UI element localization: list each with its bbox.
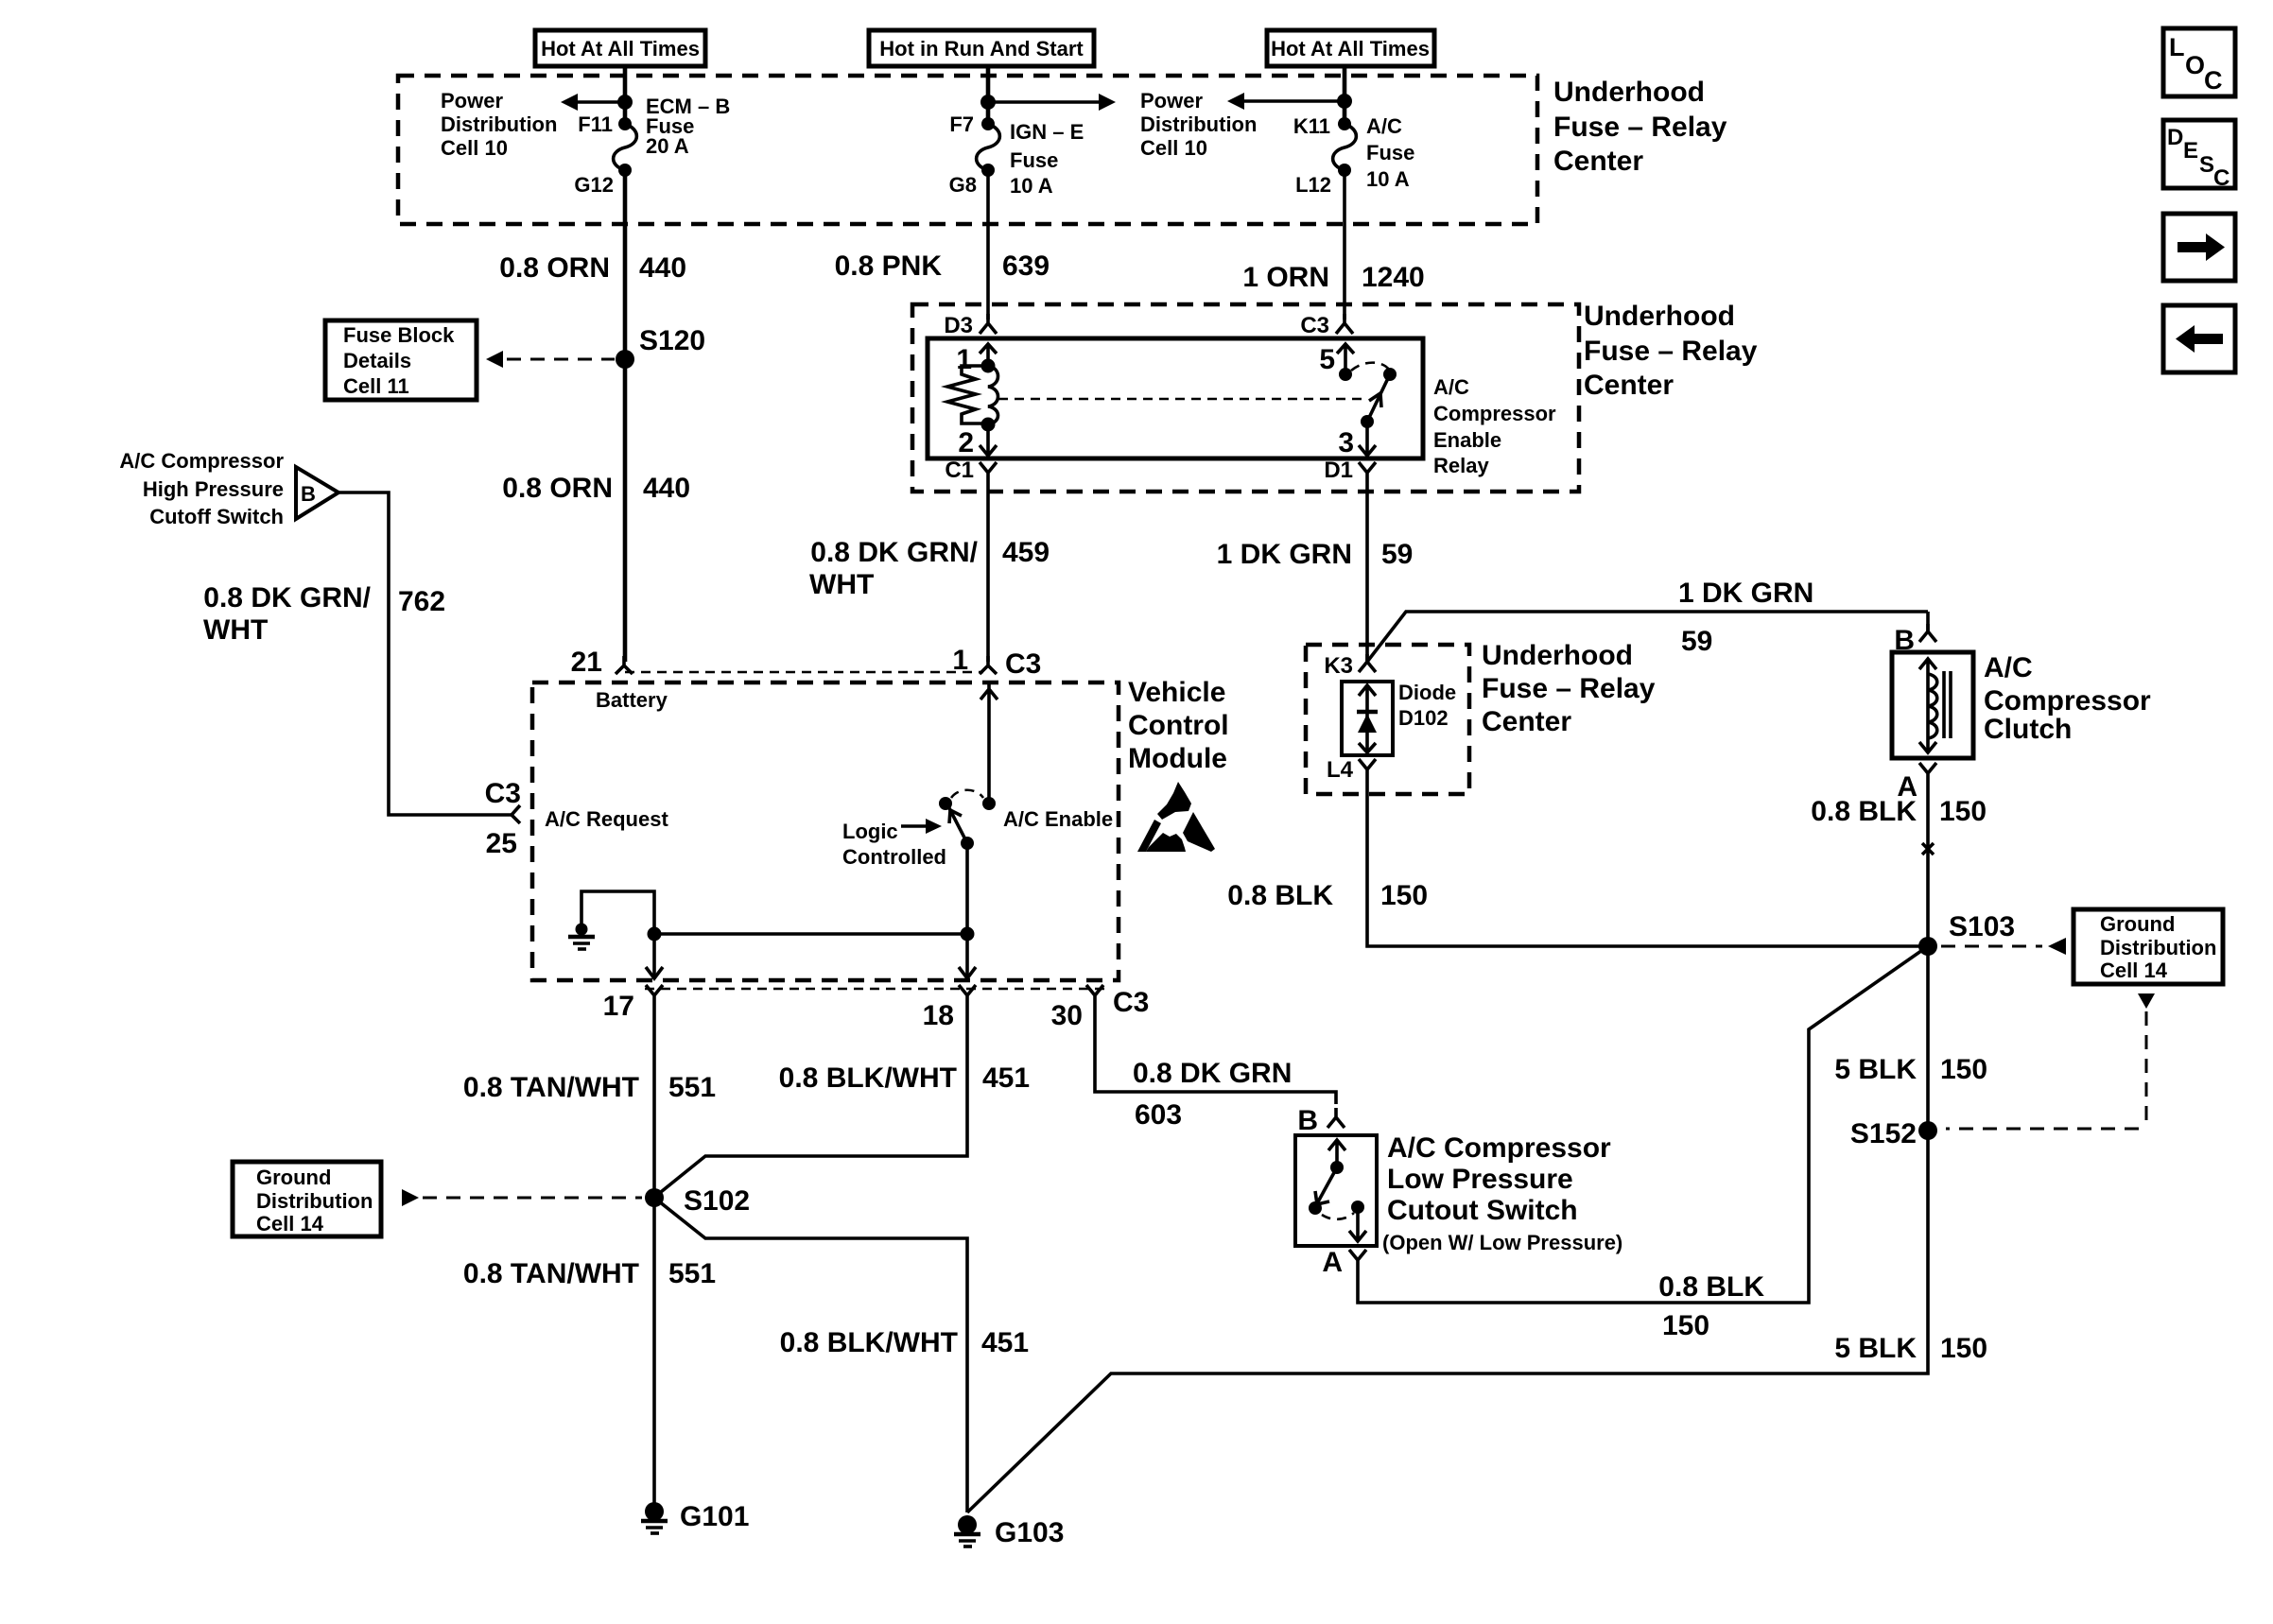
- relay switch blade: [1367, 374, 1390, 422]
- svg-text:Cell 14: Cell 14: [256, 1212, 324, 1235]
- arrow to power distribution (middle-left): [1227, 93, 1345, 110]
- VCM pin 30 connector: [1051, 985, 1150, 1031]
- relay resistor branch: [947, 366, 988, 423]
- svg-text:S152: S152: [1850, 1118, 1917, 1149]
- svg-text:0.8 TAN/WHT: 0.8 TAN/WHT: [463, 1072, 639, 1103]
- connector A (clutch): [1897, 763, 1936, 803]
- VCM pin 17 connector: [603, 985, 663, 1022]
- wire D1 column diagonal to 1 DK GRN horizontal: [1367, 612, 1928, 662]
- underhood fuse-relay center dashed box (top): [398, 76, 1537, 224]
- svg-text:High Pressure: High Pressure: [143, 477, 284, 501]
- svg-text:639: 639: [1002, 251, 1050, 282]
- svg-text:D1: D1: [1324, 458, 1353, 483]
- svg-text:A/C Request: A/C Request: [545, 807, 668, 831]
- svg-text:Ground: Ground: [2100, 912, 2175, 936]
- relay pin 3 arrow: [1338, 422, 1376, 458]
- svg-text:D: D: [2167, 125, 2183, 150]
- vehicle control module dashed box: [532, 682, 1119, 980]
- wire label 0.8 BLK 150 (clutch A wire): [1811, 796, 1987, 827]
- connector D3 (relay): [944, 313, 997, 338]
- svg-text:1 DK GRN: 1 DK GRN: [1217, 539, 1352, 570]
- connector D1 (relay): [1324, 458, 1376, 483]
- svg-text:Hot in Run And Start: Hot in Run And Start: [879, 37, 1084, 60]
- svg-text:Fuse – Relay: Fuse – Relay: [1482, 673, 1656, 704]
- connector B (low pressure switch): [1297, 1105, 1345, 1136]
- svg-text:Compressor: Compressor: [1984, 685, 2151, 717]
- svg-text:0.8 BLK/WHT: 0.8 BLK/WHT: [779, 1063, 957, 1094]
- A/C compressor enable relay label: [1433, 375, 1556, 477]
- svg-text:0.8 BLK/WHT: 0.8 BLK/WHT: [780, 1327, 958, 1358]
- svg-text:C3: C3: [1300, 313, 1329, 338]
- connector B triangle (high pressure cutoff switch): [296, 467, 338, 519]
- relay actuation dashed link: [998, 398, 1367, 401]
- wire label 0.8 ORN 440 (upper): [499, 252, 686, 284]
- svg-text:30: 30: [1051, 1000, 1083, 1031]
- svg-text:5 BLK: 5 BLK: [1834, 1333, 1917, 1364]
- wire clutch A down to S103: [1926, 783, 1930, 946]
- underhood fuse-relay center dashed box (relay): [912, 304, 1579, 492]
- wire L4 down and right to S103: [1367, 779, 1928, 946]
- svg-text:Fuse Block: Fuse Block: [343, 323, 455, 347]
- wire label 0.8 BLK/WHT 451 (lower): [780, 1327, 1029, 1358]
- svg-text:L: L: [2169, 33, 2185, 61]
- relay pin 5 arrow and fixed contact: [1319, 344, 1354, 381]
- svg-text:A/C Compressor: A/C Compressor: [119, 449, 284, 473]
- svg-text:150: 150: [1940, 1333, 1987, 1364]
- svg-text:Clutch: Clutch: [1984, 714, 2072, 745]
- clutch coil: [1919, 659, 1951, 752]
- VCM pin 21 connector: [571, 647, 633, 678]
- svg-text:Hot At All Times: Hot At All Times: [541, 37, 700, 60]
- dashed reference wire from ground box down to S152: [1946, 993, 2155, 1129]
- svg-text:B: B: [301, 482, 316, 506]
- thin dashed connector line (VCM bottom C3): [645, 988, 1104, 991]
- svg-text:A/C Enable: A/C Enable: [1003, 807, 1113, 831]
- svg-text:Underhood: Underhood: [1553, 77, 1705, 108]
- wire label 0.8 TAN/WHT 551 (lower): [463, 1258, 716, 1289]
- svg-text:Hot At All Times: Hot At All Times: [1271, 37, 1430, 60]
- LOC nav box: [2163, 28, 2235, 96]
- svg-text:S: S: [2199, 152, 2214, 178]
- svg-text:Enable: Enable: [1433, 428, 1501, 452]
- thin dashed connector line (VCM top C3): [625, 671, 983, 674]
- svg-text:G101: G101: [680, 1501, 749, 1532]
- svg-text:B: B: [1297, 1105, 1318, 1136]
- svg-text:Fuse – Relay: Fuse – Relay: [1584, 336, 1758, 367]
- svg-text:A/C: A/C: [1984, 652, 2033, 683]
- svg-text:IGN – E: IGN – E: [1010, 120, 1084, 144]
- hot at all times box (left): [535, 30, 705, 66]
- wire G8 down to relay D3: [986, 170, 990, 320]
- arrow to power distribution (left): [561, 94, 625, 111]
- wire label 0.8 TAN/WHT 551 (upper): [463, 1072, 716, 1103]
- svg-text:0.8 ORN: 0.8 ORN: [502, 473, 613, 504]
- svg-text:440: 440: [639, 252, 686, 284]
- dashed reference wire from fuse block box to S120: [486, 351, 615, 368]
- right arrow nav box: [2163, 214, 2235, 281]
- A/C enable switch pivot dot: [961, 837, 974, 850]
- diode D102: [1342, 681, 1456, 755]
- svg-text:762: 762: [398, 586, 445, 617]
- svg-text:C3: C3: [485, 778, 521, 809]
- svg-text:1 DK GRN: 1 DK GRN: [1678, 578, 1813, 609]
- junction dot right (x 1023): [961, 927, 975, 942]
- svg-text:E: E: [2183, 138, 2198, 164]
- svg-text:25: 25: [486, 828, 517, 859]
- svg-text:Fuse: Fuse: [1366, 141, 1414, 164]
- VCM internal ground hook wire: [581, 891, 654, 934]
- svg-text:10 A: 10 A: [1010, 174, 1053, 198]
- VCM internal wire from pin 1 with up arrow: [980, 684, 998, 803]
- svg-text:1240: 1240: [1362, 262, 1425, 293]
- splice S102: [645, 1185, 750, 1217]
- svg-text:S102: S102: [684, 1185, 750, 1217]
- svg-text:Diode: Diode: [1398, 681, 1456, 704]
- wire pin 18 down then to S102: [656, 1005, 967, 1196]
- svg-text:551: 551: [668, 1072, 716, 1103]
- wire S102 down to G101: [652, 1198, 656, 1505]
- wire label 0.8 DK GRN/WHT 762: [203, 582, 445, 646]
- svg-text:150: 150: [1662, 1310, 1709, 1341]
- svg-text:451: 451: [981, 1327, 1029, 1358]
- wire relay C1 down to VCM pin 1: [986, 482, 990, 662]
- ground distribution cell 14 box (right): [2073, 909, 2223, 984]
- wire pin 30 to low pressure switch B: [1095, 1005, 1336, 1104]
- svg-text:Underhood: Underhood: [1584, 301, 1735, 332]
- wire label 1 DK GRN 59 (horizontal wire): [1678, 578, 1813, 657]
- wire S152 down to bottom run to G103: [967, 946, 1928, 1512]
- connector K3 (diode): [1324, 653, 1376, 679]
- power distribution cell 10 label (right): [1140, 89, 1257, 160]
- svg-text:150: 150: [1940, 1054, 1987, 1085]
- VCM pin 1 connector (C3): [952, 645, 1041, 680]
- svg-text:59: 59: [1681, 626, 1712, 657]
- svg-text:O: O: [2185, 51, 2205, 79]
- svg-text:Relay: Relay: [1433, 454, 1489, 477]
- svg-text:Cell 10: Cell 10: [1140, 136, 1207, 160]
- wire label 0.8 BLK 150 (switch A wire): [1658, 1271, 1764, 1341]
- svg-text:Low Pressure: Low Pressure: [1387, 1164, 1573, 1195]
- pin 18 down arrow: [959, 967, 976, 978]
- svg-text:603: 603: [1135, 1099, 1182, 1131]
- svg-text:C3: C3: [1113, 987, 1149, 1018]
- junction dot at F11 branch: [617, 95, 633, 110]
- hot at all times box (right): [1267, 30, 1434, 66]
- svg-text:Power: Power: [441, 89, 503, 112]
- A/C enable switch blade with arrowhead: [949, 808, 967, 843]
- svg-text:Vehicle: Vehicle: [1128, 677, 1225, 708]
- relay switch lower contact dot: [1361, 415, 1374, 428]
- svg-text:20 A: 20 A: [646, 134, 689, 158]
- wire G12 down to S120: [623, 170, 628, 662]
- svg-text:F11: F11: [578, 112, 613, 136]
- svg-text:K11: K11: [1293, 114, 1330, 138]
- svg-text:440: 440: [643, 473, 690, 504]
- wire label 1 ORN 1240: [1242, 262, 1424, 293]
- DESC nav box: [2163, 120, 2235, 191]
- arrow to power distribution (right): [988, 94, 1116, 111]
- svg-text:C1: C1: [945, 458, 974, 483]
- svg-text:WHT: WHT: [809, 569, 874, 600]
- ground distribution cell 14 box (left): [233, 1162, 381, 1236]
- fuse A/C 10A (K11/L12): [1293, 114, 1415, 197]
- wire from run/start box to fuse F7: [986, 66, 991, 124]
- connector A (low pressure switch): [1322, 1247, 1366, 1278]
- connector C1 (relay): [945, 458, 997, 483]
- svg-text:S103: S103: [1949, 911, 2015, 942]
- low pressure switch labels: [1382, 1132, 1622, 1254]
- svg-text:5 BLK: 5 BLK: [1834, 1054, 1917, 1085]
- svg-text:Ground: Ground: [256, 1166, 331, 1189]
- VCM internal ground symbol: [568, 924, 595, 950]
- svg-text:0.8 DK GRN: 0.8 DK GRN: [1133, 1058, 1292, 1089]
- svg-text:Distribution: Distribution: [1140, 112, 1257, 136]
- wire from A to S103: [1358, 946, 1928, 1303]
- svg-text:K3: K3: [1324, 653, 1353, 679]
- A/C compressor high pressure cutoff switch label: [119, 449, 284, 528]
- svg-text:0.8 PNK: 0.8 PNK: [835, 251, 943, 282]
- svg-text:0.8 DK GRN/: 0.8 DK GRN/: [203, 582, 371, 613]
- svg-text:5: 5: [1319, 344, 1335, 375]
- svg-text:Cell 11: Cell 11: [343, 374, 409, 398]
- svg-text:L4: L4: [1327, 757, 1354, 783]
- svg-text:459: 459: [1002, 537, 1050, 568]
- svg-text:L12: L12: [1295, 173, 1331, 197]
- svg-text:G12: G12: [574, 173, 614, 197]
- svg-text:3: 3: [1338, 427, 1354, 458]
- svg-text:C: C: [2213, 165, 2230, 191]
- svg-text:A/C: A/C: [1366, 114, 1402, 138]
- svg-text:2: 2: [958, 427, 974, 458]
- svg-text:WHT: WHT: [203, 614, 268, 646]
- splice S120: [616, 325, 705, 369]
- connector B (clutch): [1894, 624, 1936, 656]
- A/C compressor clutch label: [1984, 652, 2151, 745]
- svg-text:Center: Center: [1584, 370, 1674, 401]
- wire 1 DK GRN down to clutch B: [1926, 612, 1930, 631]
- wire from left hot box to fuse F11: [623, 66, 628, 124]
- connector L4 (diode): [1327, 757, 1376, 783]
- junction dot left (x 692): [648, 927, 662, 942]
- wire label 0.8 BLK/WHT 451 (upper): [779, 1063, 1030, 1094]
- wire L12 down to relay C3: [1343, 170, 1346, 320]
- wire relay D1 down to diode K3: [1365, 482, 1369, 662]
- splice S152: [1850, 1118, 1937, 1149]
- svg-text:A: A: [1322, 1247, 1343, 1278]
- svg-text:C3: C3: [1005, 648, 1041, 680]
- A/C enable switch left contact dot: [939, 797, 952, 810]
- relay coil bottom junction dot: [981, 418, 996, 432]
- svg-text:0.8 BLK: 0.8 BLK: [1227, 880, 1333, 911]
- svg-text:(Open W/ Low Pressure): (Open W/ Low Pressure): [1382, 1231, 1622, 1254]
- ground G103: [954, 1515, 1064, 1548]
- wire pin 17 down to S102: [652, 1005, 656, 1198]
- wire label 0.8 DK GRN/WHT 459: [809, 537, 1050, 600]
- vehicle control module label: [1128, 677, 1229, 774]
- power distribution cell 10 label (left): [441, 89, 557, 160]
- wire from right hot box to fuse K11: [1343, 66, 1347, 124]
- svg-text:150: 150: [1380, 880, 1428, 911]
- low pressure switch internals: [1309, 1140, 1366, 1241]
- svg-text:Details: Details: [343, 349, 411, 372]
- wire label 0.8 BLK 150 (L4 wire): [1227, 880, 1428, 911]
- svg-text:Battery: Battery: [596, 688, 668, 712]
- hot in run and start box: [869, 30, 1094, 66]
- svg-text:551: 551: [668, 1258, 716, 1289]
- svg-text:59: 59: [1381, 539, 1413, 570]
- svg-text:21: 21: [571, 647, 602, 678]
- svg-text:0.8 ORN: 0.8 ORN: [499, 252, 610, 284]
- relay switch travel arc (dashed): [1351, 363, 1389, 371]
- svg-text:Distribution: Distribution: [256, 1189, 373, 1213]
- svg-text:G8: G8: [949, 173, 977, 197]
- svg-text:S120: S120: [639, 325, 705, 356]
- fuse ECM-B 20A (F11/G12): [574, 95, 730, 197]
- relay pin 1 arrow: [956, 344, 997, 375]
- connector C3 pin 25 (VCM left, A/C request): [485, 778, 521, 859]
- A/C enable fixed contact dot (right): [982, 797, 996, 810]
- wire label 0.8 PNK 639: [835, 251, 1050, 282]
- svg-text:Cell 14: Cell 14: [2100, 959, 2168, 982]
- dashed reference wire from ground box to S102: [402, 1189, 642, 1206]
- wire label 0.8 ORN 440 (lower): [502, 473, 690, 504]
- svg-text:Distribution: Distribution: [2100, 936, 2216, 959]
- svg-text:0.8 BLK: 0.8 BLK: [1811, 796, 1917, 827]
- svg-text:G103: G103: [995, 1517, 1064, 1548]
- svg-text:Cell 10: Cell 10: [441, 136, 508, 160]
- svg-text:150: 150: [1939, 796, 1987, 827]
- fuse IGN-E 10A (F7/G8): [949, 112, 1084, 198]
- ESD sensitivity symbol: [1137, 782, 1215, 852]
- wire from switch pivot down to pin 18: [965, 843, 969, 977]
- svg-text:1 ORN: 1 ORN: [1242, 262, 1329, 293]
- svg-text:0.8 TAN/WHT: 0.8 TAN/WHT: [463, 1258, 639, 1289]
- A/C compressor enable relay box: [928, 338, 1423, 458]
- ground G101: [641, 1501, 749, 1533]
- wire 762 from HP switch to VCM A/C request: [338, 492, 512, 815]
- A/C enable switch travel arc (dashed): [951, 790, 983, 798]
- junction dot at K11 branch: [1337, 94, 1352, 109]
- svg-text:Cutout Switch: Cutout Switch: [1387, 1195, 1578, 1226]
- svg-text:Power: Power: [1140, 89, 1203, 112]
- fuse block details cell 11 box: [325, 320, 477, 400]
- A/C compressor clutch box: [1892, 652, 1973, 758]
- wire label 1 DK GRN 59 (vertical wire): [1217, 539, 1414, 570]
- svg-text:Module: Module: [1128, 743, 1227, 774]
- svg-text:C: C: [2204, 66, 2223, 95]
- left arrow nav box: [2163, 305, 2235, 372]
- VCM pin 18 connector: [923, 985, 976, 1031]
- underhood fuse-relay center dashed box (diode): [1306, 645, 1469, 794]
- junction dot at F7 branch: [980, 95, 996, 110]
- connector C3 (relay): [1300, 313, 1353, 338]
- svg-text:Controlled: Controlled: [842, 845, 946, 869]
- splice mark x on clutch wire: [1922, 843, 1934, 855]
- wire label 5 BLK 150 (lower): [1834, 1333, 1987, 1364]
- svg-text:18: 18: [923, 1000, 954, 1031]
- wire S102 to G103 branch: [654, 1198, 967, 1512]
- wire label 5 BLK 150 (upper): [1834, 1054, 1987, 1085]
- underhood fuse-relay center label (top): [1553, 77, 1727, 177]
- svg-text:Underhood: Underhood: [1482, 640, 1633, 671]
- svg-text:D3: D3: [944, 313, 973, 338]
- svg-text:Cutoff Switch: Cutoff Switch: [149, 505, 284, 528]
- svg-text:1: 1: [956, 344, 972, 375]
- svg-text:Logic: Logic: [842, 820, 898, 843]
- underhood fuse-relay center label (relay): [1584, 301, 1758, 401]
- svg-text:Fuse: Fuse: [1010, 148, 1058, 172]
- relay pin 2 arrow: [958, 424, 997, 458]
- svg-text:Compressor: Compressor: [1433, 402, 1556, 425]
- svg-text:0.8 BLK: 0.8 BLK: [1658, 1271, 1764, 1303]
- svg-text:Control: Control: [1128, 710, 1229, 741]
- svg-text:Center: Center: [1553, 146, 1643, 177]
- A/C compressor low pressure cutout switch box: [1295, 1135, 1377, 1246]
- svg-text:17: 17: [603, 991, 634, 1022]
- logic controlled label with arrow: [842, 819, 946, 869]
- dashed reference wire from S103 to ground box: [1941, 938, 2066, 955]
- svg-text:10 A: 10 A: [1366, 167, 1410, 191]
- relay coil: [988, 366, 998, 424]
- svg-text:Center: Center: [1482, 706, 1571, 737]
- underhood fuse-relay center label (diode): [1482, 640, 1656, 737]
- splice S103: [1918, 911, 2015, 956]
- svg-text:A/C Compressor: A/C Compressor: [1387, 1132, 1611, 1164]
- svg-text:451: 451: [982, 1063, 1030, 1094]
- svg-text:D102: D102: [1398, 706, 1449, 730]
- svg-text:Fuse – Relay: Fuse – Relay: [1553, 112, 1727, 143]
- relay coil top junction dot: [981, 359, 996, 373]
- svg-text:Distribution: Distribution: [441, 112, 557, 136]
- wire label 0.8 DK GRN 603: [1133, 1058, 1292, 1131]
- svg-text:0.8 DK GRN/: 0.8 DK GRN/: [810, 537, 978, 568]
- svg-text:F7: F7: [949, 112, 974, 136]
- svg-text:A/C: A/C: [1433, 375, 1469, 399]
- relay switch pivot contact: [1383, 368, 1397, 381]
- VCM internal horizontal wire: [654, 932, 967, 936]
- wire from junction down to pin 17 with arrow: [646, 934, 663, 978]
